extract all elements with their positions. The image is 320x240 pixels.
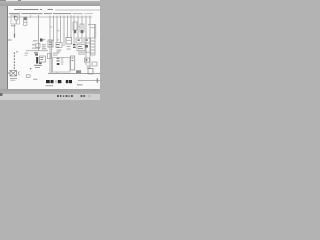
tick above S1 (57, 38, 59, 41)
CN1 dark marks (39, 63, 42, 64)
dark dashes left of cluster (73, 44, 76, 45)
right edge net lines (88, 23, 96, 26)
ECU bottom stub (56, 72, 58, 73)
switch on lower wire (76, 70, 81, 73)
generator G1 symbol (14, 16, 18, 24)
extra text fuzz right cluster (87, 51, 91, 54)
tick marks on bus wires (50, 26, 52, 29)
CN2 contact (74, 30, 76, 33)
stub wire at x30 (30, 15, 32, 18)
text above ECU (53, 53, 59, 54)
small box right D (92, 62, 97, 66)
box with dot CN6 (85, 58, 90, 62)
text under S1 (57, 50, 62, 51)
fuse F1 elements (49, 42, 52, 43)
wire into motor from page edge (8, 72, 11, 74)
small box above caption (27, 75, 31, 78)
text under right cluster (78, 52, 87, 53)
relay K1 coil blob (40, 39, 43, 42)
box A contact (78, 39, 80, 41)
label row (9, 13, 93, 14)
text between CN2 CN3 (78, 25, 80, 28)
relay K1 aux marks (43, 39, 45, 40)
caption right (77, 84, 83, 85)
tall connector box CN5 (71, 56, 75, 70)
wire junction horizontal (32, 47, 40, 50)
text mid-bottom (33, 79, 37, 80)
generator G1 box (11, 15, 20, 24)
caption under blocks (46, 85, 54, 86)
relay box on lower wire K2 (88, 69, 93, 74)
right cluster box A (76, 38, 82, 43)
connector X1 near bus (24, 17, 27, 25)
wire from generator down (14, 24, 16, 34)
faint text near x63 (63, 44, 66, 47)
CN1 side box marks (40, 57, 43, 58)
frame rule top (55, 9, 100, 12)
CN3 contact (81, 30, 83, 33)
separator tick (55, 80, 58, 83)
dark dashes below (34, 52, 38, 53)
battery blocks (46, 80, 72, 83)
CN1 text rows (34, 65, 42, 66)
U1 text column (61, 58, 64, 65)
bus wires center (50, 16, 71, 74)
dark mark right cluster (85, 45, 88, 48)
wire end dash (14, 34, 15, 38)
switch S1 contact (57, 44, 60, 45)
text under P1 (67, 46, 71, 47)
label under generator (11, 25, 16, 26)
connector X1 mark (24, 22, 26, 23)
tick on bottom wire (97, 78, 98, 83)
box C marks (78, 46, 82, 47)
long vertical wire W1 (38, 15, 40, 51)
bus line (8, 16, 92, 19)
left edge stub wire (8, 39, 12, 41)
connector X1 contact (24, 17, 27, 20)
text right of K1 (42, 44, 46, 49)
long horizontal wire (26, 49, 48, 52)
box B contact (86, 39, 88, 41)
connector box CN2 (73, 22, 77, 30)
switch S1 contact 2 (57, 47, 60, 48)
right cluster box B (84, 38, 90, 43)
title text (14, 9, 53, 10)
instrument box P1 (66, 38, 72, 45)
connector tag right of motor (18, 72, 19, 76)
dashed wire left column (14, 51, 18, 69)
CN1 side box (40, 56, 46, 62)
status bar corner block (0, 93, 3, 96)
U1 internal contacts (57, 58, 60, 59)
central connector CN1 dark bar (36, 57, 38, 64)
tray icon light (88, 95, 91, 97)
motor M1 crossed box (10, 71, 17, 77)
faint dashes left of cluster (25, 53, 29, 54)
CN6 dot (86, 59, 88, 61)
central connector CN1 blob (35, 54, 38, 56)
fuse box F1 (48, 40, 53, 47)
bottom wire (78, 79, 100, 82)
ladder connector CN4 (91, 38, 96, 55)
bus wires right (74, 16, 95, 69)
node dot (30, 68, 31, 69)
lower wire horizontal (48, 72, 100, 75)
switch S1 box (56, 43, 62, 48)
text left of W1 (33, 40, 38, 41)
taskbar icons (57, 95, 85, 97)
relay K1 box (36, 44, 40, 48)
ECU main box U1 (53, 58, 71, 73)
right cluster box C (77, 45, 85, 51)
marks under CN6 (87, 66, 91, 67)
label text under motor (10, 78, 17, 79)
P1 divider (66, 40, 72, 42)
toolbar sliver marks (0, 0, 21, 1)
connector box CN3 (80, 24, 84, 32)
ECU left sub-box (48, 54, 52, 59)
CN5 contacts (72, 58, 74, 59)
